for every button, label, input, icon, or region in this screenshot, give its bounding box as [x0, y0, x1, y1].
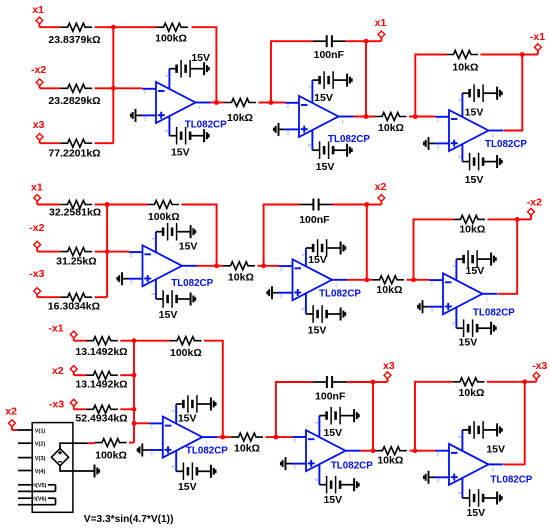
node x3 input connector (row1) [33, 119, 45, 143]
resistor R7 10kΩ feedback (row1 inverter) [447, 51, 479, 74]
op-amp U5A TL082CP (row3 summer) [148, 404, 228, 471]
svg-text:100nF: 100nF [299, 214, 330, 226]
svg-text:1: 1 [342, 119, 345, 124]
svg-text:TL082CP: TL082CP [485, 139, 527, 150]
svg-text:x3: x3 [33, 119, 45, 131]
wire x2 node down to U3B output [366, 205, 368, 280]
wire cap to x1 output node [346, 40, 366, 42]
wire x1 to R1 [39, 26, 60, 28]
op-amp U2A TL082CP (row1 inverter) positive supply battery V+ 15V (top) [462, 84, 501, 118]
junction -x1 node [520, 52, 525, 57]
svg-text:52.4934kΩ: 52.4934kΩ [75, 412, 127, 424]
op-amp U1A TL082CP (row1 summer) non-inverting input ground [131, 109, 142, 122]
wire R2 to summing bus [95, 87, 114, 89]
svg-text:4: 4 [451, 264, 456, 267]
resistor R13 10kΩ (row2 stage2-3) [373, 276, 405, 296]
svg-text:10kΩ: 10kΩ [376, 284, 402, 296]
svg-text:100kΩ: 100kΩ [155, 32, 187, 44]
junction integrator cap tap (row1) [269, 100, 274, 105]
wire 10k to U1B inverting input [259, 102, 286, 104]
svg-text:x2: x2 [375, 181, 387, 193]
node x1 output connector (row1) [366, 17, 386, 41]
wire feedback to -x2 node [488, 218, 518, 220]
wire source output to 100k [88, 442, 95, 444]
wire bus to U1A inverting input [113, 87, 142, 89]
node x1 input connector (row2) [31, 181, 43, 204]
svg-text:V(3): V(3) [35, 456, 46, 462]
svg-text:13.1492kΩ: 13.1492kΩ [75, 378, 127, 390]
svg-text:2: 2 [287, 104, 290, 109]
op-amp U5B TL082CP (row3 integrator) positive supply battery V+ 15V (top) [319, 407, 358, 439]
svg-text:10kΩ: 10kΩ [227, 112, 253, 124]
op-amp U3B TL082CP (row2 integrator) negative supply battery V- 15V (bottom) [306, 305, 345, 337]
svg-text:-x1: -x1 [530, 31, 545, 43]
op-amp U2A TL082CP (row1 inverter) non-inverting input ground [424, 137, 435, 150]
svg-text:TL082CP: TL082CP [319, 289, 361, 300]
svg-text:V=3.3*sin(4.7*V(1)): V=3.3*sin(4.7*V(1)) [84, 514, 174, 525]
wire R1 to summing bus [95, 26, 114, 28]
op-amp U1B TL082CP (row1 integrator) [285, 80, 371, 150]
svg-text:15V: 15V [316, 161, 335, 173]
svg-text:-x3: -x3 [532, 360, 547, 372]
svg-text:8: 8 [457, 155, 462, 158]
op-amp U4A TL082CP (row2 inverter) non-inverting input ground [418, 300, 429, 313]
capacitor C2 100nF (row2 integrator) [299, 199, 332, 227]
svg-text:3: 3 [287, 130, 290, 135]
svg-text:x2: x2 [5, 405, 17, 417]
junction bus/-x1 (row3) [132, 338, 137, 343]
op-amp U3A TL082CP (row2 summer) [128, 232, 214, 299]
op-amp U4A TL082CP (row2 inverter) negative supply battery V- 15V (bottom) [456, 319, 495, 348]
svg-text:8: 8 [150, 292, 155, 295]
svg-text:4: 4 [457, 435, 462, 438]
resistor R14 10kΩ feedback (row2 inverter) [454, 215, 486, 235]
resistor R11 100kΩ feedback (row2 summer) [148, 201, 180, 224]
svg-text:77.2201kΩ: 77.2201kΩ [48, 148, 100, 160]
svg-text:10kΩ: 10kΩ [378, 122, 404, 134]
svg-text:15V: 15V [308, 254, 327, 266]
wire cap to x3 output node [346, 381, 373, 383]
resistor R15 13.1492kΩ [75, 337, 127, 359]
svg-text:8: 8 [171, 465, 176, 468]
node -x3 output connector [525, 360, 548, 382]
resistor R5 10kΩ (row1 stage1-2) [225, 99, 257, 124]
op-amp U5B TL082CP (row3 integrator) non-inverting input ground [281, 457, 292, 470]
resistor R1 23.8379kΩ [48, 23, 100, 46]
wire source - terminal to ground [60, 466, 95, 471]
op-amp U2A TL082CP (row1 inverter) [435, 93, 528, 161]
svg-text:x1: x1 [32, 4, 44, 16]
junction integrator cap tap (row2) [261, 263, 266, 268]
op-amp U1B TL082CP (row1 integrator) non-inverting input ground [274, 123, 285, 136]
svg-text:3: 3 [431, 308, 434, 313]
wire source + terminal to output pin [60, 443, 73, 448]
wire -x3 node down to U6A output [504, 382, 525, 465]
node -x2 input connector (row2) [29, 222, 44, 252]
svg-text:10kΩ: 10kΩ [228, 272, 254, 284]
svg-text:TL082CP: TL082CP [171, 278, 213, 289]
op-amp U6A TL082CP (row3 inverter) non-inverting input ground [424, 471, 435, 484]
wire 10k to U4A inverting input [407, 279, 430, 281]
svg-text:23.8379kΩ: 23.8379kΩ [48, 34, 100, 46]
wire bus to U3A inverting input [107, 251, 129, 253]
svg-text:x1: x1 [375, 17, 387, 29]
svg-text:15V: 15V [466, 507, 485, 519]
resistor R21 10kΩ feedback (row3 inverter) [453, 378, 485, 399]
svg-text:TL082CP: TL082CP [328, 134, 370, 145]
svg-text:8: 8 [300, 307, 305, 310]
svg-text:3: 3 [144, 116, 147, 121]
svg-text:I(V5): I(V5) [34, 483, 46, 489]
wire R17 to summing bus (row3) [120, 408, 134, 410]
wire 10k to U2A inverting input [409, 116, 436, 118]
resistor R20 10kΩ (row3 stage2-3) [375, 447, 407, 467]
svg-text:15V: 15V [308, 325, 327, 337]
wire inverter feedback up (row2) [414, 219, 454, 279]
junction cap/x3 connector [371, 380, 376, 385]
op-amp U4A TL082CP (row2 inverter) [429, 259, 516, 328]
resistor R19 10kΩ (row3 stage1-2) [232, 433, 264, 454]
svg-text:100nF: 100nF [315, 391, 346, 403]
svg-text:x2: x2 [52, 365, 64, 377]
svg-text:15V: 15V [159, 309, 178, 321]
svg-text:1: 1 [205, 440, 208, 445]
op-amp U1B TL082CP (row1 integrator) positive supply battery V+ 15V (top) [312, 71, 351, 104]
svg-text:3: 3 [437, 478, 440, 483]
svg-text:4: 4 [164, 74, 169, 77]
svg-text:100kΩ: 100kΩ [170, 347, 202, 359]
capacitor C1 100nF (row1 integrator) [313, 35, 346, 61]
svg-text:2: 2 [130, 253, 133, 258]
op-amp U5A TL082CP (row3 summer) negative supply battery V- 15V (bottom) [176, 463, 215, 493]
svg-text:TL082CP: TL082CP [185, 120, 227, 131]
svg-text:15V: 15V [465, 107, 484, 119]
resistor R17 52.4934kΩ [75, 405, 127, 424]
node -x2 output connector [517, 197, 542, 220]
wire U3A output [197, 265, 224, 267]
wire 100k to summing bus (row3) [129, 442, 134, 444]
wire U1A output [211, 102, 225, 104]
wire cap feedback left leg (row2) [264, 205, 300, 266]
wire x3 node down to U5B output [372, 382, 374, 451]
svg-text:8: 8 [164, 129, 169, 132]
svg-text:2: 2 [437, 452, 440, 457]
wire R16 to summing bus (row3) [120, 374, 134, 376]
wire -x1 to R15 [74, 340, 87, 342]
svg-text:15V: 15V [314, 92, 333, 104]
svg-text:4: 4 [171, 409, 176, 412]
svg-text:15V: 15V [178, 481, 197, 493]
svg-text:31.25kΩ: 31.25kΩ [56, 256, 97, 268]
junction U3B output [364, 277, 369, 282]
wire -x3 to R10 [37, 296, 60, 298]
node x2 input connector (row3) [52, 365, 77, 377]
junction U1A output/feedback [214, 100, 219, 105]
wire summing bus vertical (row1) [112, 27, 114, 143]
op-amp U1A TL082CP (row1 summer) negative supply battery V- 15V (bottom) [169, 127, 208, 158]
svg-text:3: 3 [294, 465, 297, 470]
svg-text:100kΩ: 100kΩ [148, 211, 180, 223]
svg-text:10kΩ: 10kΩ [459, 387, 485, 399]
svg-text:4: 4 [314, 421, 319, 424]
resistor R9 31.25kΩ [56, 248, 97, 268]
controlled source V1 block [18, 423, 73, 513]
junction integrator cap tap (row3) [274, 435, 279, 440]
wire -x2 to R9 [37, 251, 60, 253]
svg-text:10kΩ: 10kΩ [459, 224, 485, 236]
wire cap feedback left leg (row3) [276, 382, 313, 437]
svg-text:8: 8 [457, 491, 462, 494]
wire x2 to R16 [74, 374, 87, 376]
op-amp U1A TL082CP (row1 summer) [142, 69, 228, 136]
svg-text:4: 4 [307, 85, 312, 88]
junction bus/inverting input (row3) [132, 421, 137, 426]
svg-text:2: 2 [437, 118, 440, 123]
svg-text:x3: x3 [383, 360, 395, 372]
svg-text:2: 2 [150, 424, 153, 429]
node -x1 output connector [522, 31, 545, 55]
junction U1B output [364, 114, 369, 119]
wire x1 node down to U1B output [365, 41, 367, 116]
op-amp U3A TL082CP (row2 summer) negative supply battery V- 15V (bottom) [156, 290, 195, 321]
svg-text:15V: 15V [191, 52, 210, 64]
op-amp U6A TL082CP (row3 inverter) [435, 430, 533, 498]
svg-text:32.2581kΩ: 32.2581kΩ [49, 207, 101, 219]
node -x3 input connector (row3) [49, 399, 77, 411]
wire U5B output [361, 450, 376, 452]
junction inverter feedback tap (row3) [413, 448, 418, 453]
svg-text:8: 8 [307, 143, 312, 146]
junction U3A output/feedback [214, 263, 219, 268]
resistor R4 100kΩ feedback (row1 summer) [155, 23, 188, 44]
svg-text:1: 1 [185, 268, 188, 273]
op-amp U5B TL082CP (row3 integrator) negative supply battery V- 15V (bottom) [319, 476, 358, 506]
wire 100k to feedback corner (row3) [204, 341, 223, 437]
svg-text:-x3: -x3 [49, 399, 64, 411]
resistor R10 16.3034kΩ [48, 293, 100, 312]
node x1 input connector (row1) [32, 4, 44, 27]
junction -x3 node [522, 379, 527, 384]
junction bus/x2 (row3) [132, 373, 137, 378]
wire 100k to feedback corner (row2) [182, 205, 217, 266]
resistor R8 32.2581kΩ [49, 201, 101, 219]
svg-text:1: 1 [492, 133, 495, 138]
node -x3 input connector (row2) [29, 268, 44, 297]
svg-text:4: 4 [150, 237, 155, 240]
junction inverter feedback tap (row1) [413, 114, 418, 119]
node x3 output connector (row3) [373, 360, 395, 382]
wire summing bus vertical (row3) [133, 341, 135, 443]
resistor R2 23.2829kΩ [48, 84, 100, 107]
junction U5B output [371, 448, 376, 453]
wire 10k to U6A inverting input [409, 450, 435, 452]
svg-text:TL082CP: TL082CP [331, 460, 373, 471]
op-amp U5A TL082CP (row3 summer) non-inverting input ground [138, 444, 149, 457]
svg-text:x1: x1 [31, 181, 43, 193]
svg-text:1: 1 [199, 105, 202, 110]
junction cap/x2 connector [364, 202, 369, 207]
wire inverter feedback up (row1) [415, 55, 446, 117]
op-amp U6A TL082CP (row3 inverter) positive supply battery V+ 15V (top) [462, 421, 505, 456]
node -x2 input connector (row1) [31, 64, 46, 88]
svg-text:TL082CP: TL082CP [473, 307, 515, 318]
svg-text:15V: 15V [179, 241, 198, 253]
svg-text:15V: 15V [323, 427, 342, 439]
svg-text:100kΩ: 100kΩ [95, 450, 127, 462]
svg-text:2: 2 [280, 267, 283, 272]
op-amp U3B TL082CP (row2 integrator) [278, 248, 361, 314]
svg-text:3: 3 [437, 144, 440, 149]
svg-text:3: 3 [130, 280, 133, 285]
op-amp U3A TL082CP (row2 summer) non-inverting input ground [117, 272, 128, 285]
svg-text:TL082CP: TL082CP [186, 446, 228, 457]
wire U3B output [347, 279, 373, 281]
op-amp U3B TL082CP (row2 integrator) non-inverting input ground [267, 286, 278, 299]
svg-text:1: 1 [486, 296, 489, 301]
junction inverter feedback tap (row2) [411, 277, 416, 282]
wire -x2 node down to U4A output [498, 219, 517, 293]
wire 10k to U3B inverting input [258, 265, 280, 267]
junction bus/-x2 inverting input (row1) [111, 86, 116, 91]
svg-text:10kΩ: 10kΩ [452, 61, 478, 73]
wire x1 to R8 [37, 204, 60, 206]
dependent source symbol inside V1 [51, 449, 68, 466]
svg-text:2: 2 [144, 90, 147, 95]
svg-text:15V: 15V [459, 337, 478, 349]
wire -x3 to R17 [74, 408, 87, 410]
resistor R12 10kΩ (row2 stage1-2) [224, 262, 256, 284]
resistor R16 13.1492kΩ [75, 371, 127, 390]
svg-text:10kΩ: 10kΩ [377, 454, 403, 466]
svg-text:-x3: -x3 [29, 268, 44, 280]
svg-text:15V: 15V [178, 413, 197, 425]
svg-text:100nF: 100nF [314, 49, 345, 61]
wire feedback top (row1) 100k [113, 26, 157, 28]
wire R3 to summing bus [95, 142, 114, 144]
svg-text:V(2): V(2) [35, 442, 46, 448]
wire R15 to summing bus (row3) [120, 340, 134, 342]
op-amp U3B TL082CP (row2 integrator) positive supply battery V+ 15V (top) [306, 239, 345, 266]
wire x3 to R3 [40, 142, 61, 144]
svg-text:15V: 15V [323, 494, 342, 506]
node -x1 input connector (row3) [48, 322, 77, 340]
wire R9 to summing bus (row2) [95, 251, 108, 253]
wire bus to U5A inverting input [134, 422, 149, 424]
svg-text:-x1: -x1 [48, 322, 63, 334]
ground (source V1) [95, 465, 100, 478]
svg-text:15V: 15V [465, 174, 484, 186]
wire R8 to summing bus (row2) [95, 204, 108, 206]
wire cap feedback left leg (row1) [271, 41, 313, 102]
svg-text:15V: 15V [466, 265, 485, 277]
svg-text:15V: 15V [486, 444, 505, 456]
junction bus/x1 (row1) [111, 25, 116, 30]
junction cap/x1 connector [364, 39, 369, 44]
capacitor C3 100nF (row3 integrator) [313, 376, 346, 403]
op-amp U5B TL082CP (row3 integrator) [292, 416, 374, 485]
svg-text:13.1492kΩ: 13.1492kΩ [75, 346, 127, 358]
wire U1B output [354, 116, 376, 118]
svg-text:16.3034kΩ: 16.3034kΩ [48, 300, 100, 312]
svg-text:TL082CP: TL082CP [490, 475, 532, 486]
svg-text:8: 8 [314, 478, 319, 481]
wire cap to x2 output node [333, 204, 367, 206]
resistor R22 100kΩ (source series) [95, 439, 127, 462]
svg-text:4: 4 [457, 98, 462, 101]
junction U5A output/feedback [220, 435, 225, 440]
wire feedback to -x3 node [487, 381, 525, 383]
op-amp U5A TL082CP (row3 summer) positive supply battery V+ 15V (top) [176, 395, 215, 425]
svg-text:23.2829kΩ: 23.2829kΩ [48, 95, 100, 107]
svg-text:-x2: -x2 [29, 222, 44, 234]
op-amp U4A TL082CP (row2 inverter) positive supply battery V+ 15V (top) [456, 250, 495, 277]
svg-text:1: 1 [349, 453, 352, 458]
svg-text:2: 2 [294, 438, 297, 443]
svg-text:3: 3 [280, 294, 283, 299]
wire -x1 node down to U2A output [504, 55, 522, 131]
op-amp U1B TL082CP (row1 integrator) negative supply battery V- 15V (bottom) [312, 141, 351, 173]
junction bus/-x3 (row3) [132, 407, 137, 412]
op-amp U1A TL082CP (row1 summer) positive supply battery V+ 15V (top) [169, 52, 210, 77]
wire 100k to feedback corner [192, 27, 217, 102]
op-amp U2A TL082CP (row1 inverter) negative supply battery V- 15V (bottom) [462, 153, 501, 186]
svg-text:15V: 15V [171, 146, 190, 158]
svg-text:2: 2 [431, 281, 434, 286]
node x2 output connector (row2) [367, 181, 387, 205]
svg-text:I(V6): I(V6) [34, 497, 46, 503]
junction -x2 node [515, 217, 520, 222]
svg-text:V(1): V(1) [35, 428, 46, 434]
wire inverter feedback up (row3) [415, 382, 453, 451]
svg-text:10kΩ: 10kΩ [234, 442, 260, 454]
junction bus/x1 (row2) [105, 202, 110, 207]
svg-text:4: 4 [300, 253, 305, 256]
node x2 input connector (source) [5, 405, 17, 430]
op-amp U6A TL082CP (row3 inverter) negative supply battery V- 15V (bottom) [462, 489, 501, 519]
wire summing bus vertical (row2) [106, 205, 108, 298]
wire feedback to -x1 node [481, 54, 523, 56]
svg-text:V(4): V(4) [35, 469, 46, 475]
wire R10 to summing bus (row2) [95, 296, 108, 298]
svg-text:8: 8 [451, 321, 456, 324]
op-amp U3A TL082CP (row2 summer) positive supply battery V+ 15V (top) [156, 223, 198, 253]
svg-text:-x2: -x2 [31, 64, 46, 76]
resistor R18 100kΩ feedback (row3 summer) [170, 337, 202, 359]
svg-text:-x2: -x2 [527, 197, 542, 209]
wire feedback top (row2) 100k [107, 204, 147, 206]
svg-text:1: 1 [492, 467, 495, 472]
svg-text:1: 1 [335, 282, 338, 287]
junction bus/-x2 inverting input (row2) [105, 249, 110, 254]
wire 10k to U5B inverting input [266, 436, 293, 438]
wire U5A output [217, 436, 231, 438]
wire feedback top (row3) 100k [134, 340, 170, 342]
resistor R6 10kΩ (row1 stage2-3) [375, 113, 407, 134]
resistor R3 77.2201kΩ [48, 139, 100, 159]
svg-text:3: 3 [150, 451, 153, 456]
wire -x2 to R2 [40, 87, 61, 89]
